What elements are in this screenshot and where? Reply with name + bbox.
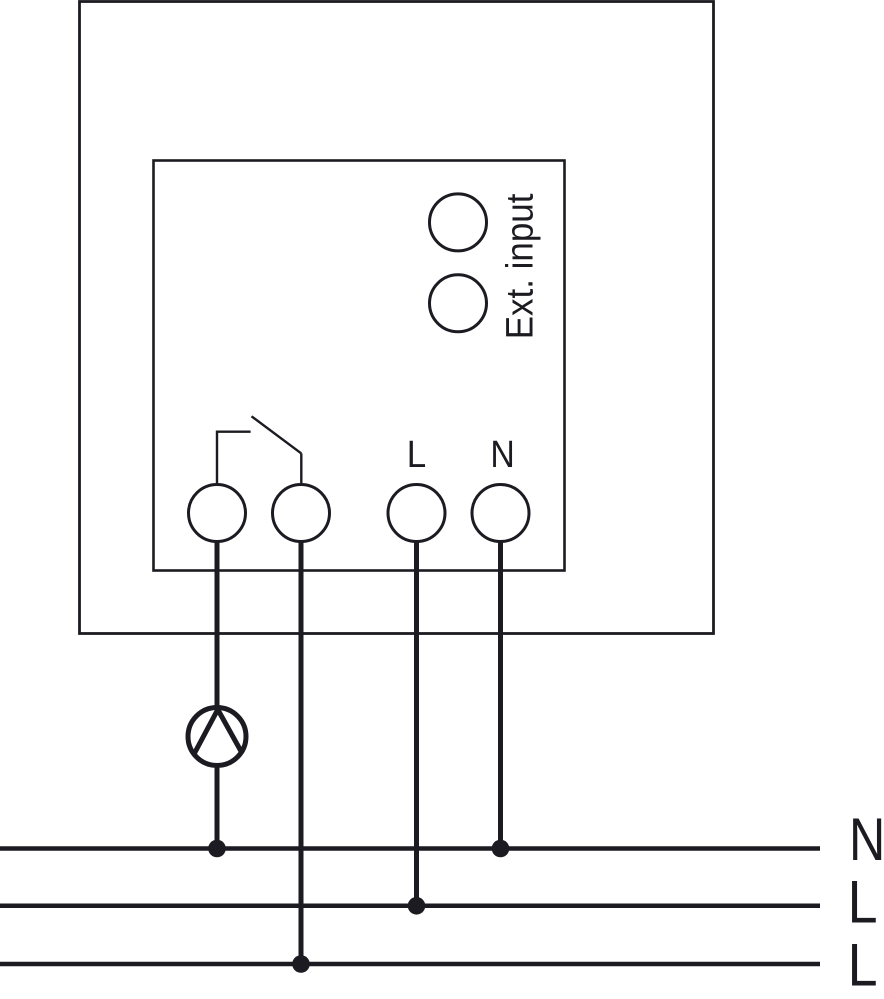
outer enclosure rectangle (device housing)	[80, 2, 714, 634]
wire: switch blade	[252, 416, 302, 453]
wire: terminal 2 down to bus L (bottom)	[299, 542, 304, 964]
Ext. input terminal circle 1	[430, 194, 487, 251]
terminal circle 4 (N)	[472, 485, 529, 542]
relay switch contact (normally open)	[217, 416, 301, 483]
bus line L (bottom)	[0, 962, 820, 967]
svg-text:Ext. input: Ext. input	[498, 194, 541, 340]
wire: blade pivot lead to terminal 2	[300, 453, 302, 483]
label L (bus L bottom)	[848, 932, 878, 999]
bus line N	[0, 846, 820, 851]
inner terminal-block rectangle	[154, 161, 565, 571]
wire: pump to bus N	[215, 763, 220, 849]
terminal circle 2 (switch input)	[273, 485, 330, 542]
Ext. input terminal circle 2	[430, 275, 487, 332]
wire: terminal 1 down to pump	[215, 542, 220, 709]
junction dot: wire 1 on bus N	[208, 840, 226, 858]
svg-text:L: L	[848, 869, 878, 937]
junction dot: wire 4 on bus N	[492, 840, 510, 858]
pump M1 (circulation pump symbol)	[188, 708, 246, 766]
terminal circle 1 (switch output)	[189, 485, 246, 542]
terminal circle 3 (L)	[388, 485, 445, 542]
label N (bus N)	[849, 805, 884, 872]
label N (terminal 4)	[490, 432, 514, 475]
label L (bus L middle)	[848, 869, 878, 937]
wire: terminal 4 (N) down to bus N	[498, 542, 503, 849]
junction dot: wire 3 on bus L middle	[408, 897, 426, 915]
bus line L (middle)	[0, 904, 820, 909]
label "Ext. input" (rotated)	[498, 194, 541, 340]
svg-text:N: N	[490, 432, 514, 475]
wire: terminal 3 (L) down to bus L (middle)	[414, 542, 419, 906]
pump impeller chevron	[194, 710, 242, 755]
svg-text:L: L	[848, 932, 878, 999]
svg-text:N: N	[849, 805, 884, 872]
junction dot: wire 2 on bus L bottom	[292, 955, 310, 973]
wire: switch fixed-contact lead from terminal 1	[217, 432, 251, 483]
svg-text:L: L	[407, 433, 426, 476]
label L (terminal 3)	[407, 433, 426, 476]
